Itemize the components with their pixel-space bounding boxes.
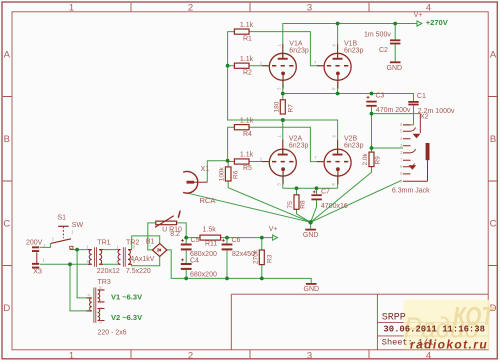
- svg-text:B: B: [490, 134, 496, 145]
- svg-text:A: A: [4, 50, 11, 61]
- svg-text:1.1k: 1.1k: [240, 22, 254, 29]
- svg-text:1.1k: 1.1k: [240, 117, 254, 124]
- svg-text:1: 1: [69, 3, 74, 14]
- svg-text:R2: R2: [243, 70, 252, 77]
- svg-text:X2: X2: [420, 113, 429, 120]
- svg-text:75: 75: [287, 201, 294, 209]
- svg-text:D: D: [3, 303, 10, 314]
- svg-text:270k: 270k: [252, 249, 259, 264]
- svg-text:220x12: 220x12: [97, 268, 120, 275]
- svg-text:X3: X3: [33, 268, 42, 275]
- svg-text:6.3mm Jack: 6.3mm Jack: [392, 187, 430, 194]
- svg-text:+: +: [149, 243, 152, 248]
- svg-text:470m 200v: 470m 200v: [376, 107, 411, 114]
- svg-text:6n23p: 6n23p: [344, 47, 364, 54]
- svg-text:1.1k: 1.1k: [240, 56, 254, 63]
- svg-text:3: 3: [307, 3, 312, 14]
- svg-text:SRPP: SRPP: [382, 312, 406, 323]
- svg-text:+270V: +270V: [426, 18, 448, 27]
- svg-text:GND: GND: [303, 232, 319, 239]
- svg-text:R5: R5: [243, 165, 252, 172]
- svg-text:30.06.2011 11:16:38: 30.06.2011 11:16:38: [383, 324, 485, 334]
- svg-text:C: C: [3, 219, 10, 230]
- svg-text:6n23p: 6n23p: [344, 142, 364, 149]
- svg-text:1m 500v: 1m 500v: [364, 31, 391, 38]
- svg-text:R6: R6: [232, 170, 239, 179]
- svg-text:X1: X1: [201, 166, 210, 173]
- svg-text:A: A: [490, 50, 497, 61]
- svg-text:1: 1: [69, 350, 74, 361]
- svg-text:1.5k: 1.5k: [203, 227, 217, 234]
- svg-text:radiokot.ru: radiokot.ru: [410, 338, 488, 352]
- svg-text:2.0k: 2.0k: [362, 152, 369, 165]
- svg-text:C1: C1: [417, 93, 426, 100]
- svg-text:S1: S1: [58, 215, 67, 222]
- svg-text:GND: GND: [387, 65, 403, 72]
- svg-text:1.1k: 1.1k: [240, 152, 254, 159]
- svg-text:SW: SW: [72, 222, 84, 229]
- svg-text:C6: C6: [232, 237, 241, 244]
- svg-text:7.5x220: 7.5x220: [126, 268, 151, 275]
- svg-text:680x200: 680x200: [190, 271, 217, 278]
- svg-text:3: 3: [307, 350, 312, 361]
- svg-text:V+: V+: [414, 12, 423, 19]
- svg-text:4: 4: [426, 350, 431, 361]
- svg-text:V1 ~6.3V: V1 ~6.3V: [111, 292, 142, 301]
- svg-text:V2A: V2A: [289, 135, 303, 142]
- svg-text:200V: 200V: [26, 240, 43, 247]
- svg-text:C2: C2: [379, 47, 388, 54]
- svg-text:V2 ~6.3V: V2 ~6.3V: [111, 313, 142, 322]
- svg-text:6n23p: 6n23p: [289, 47, 309, 54]
- svg-text:C3: C3: [376, 93, 385, 100]
- svg-text:V2B: V2B: [344, 135, 358, 142]
- svg-text:V+: V+: [269, 226, 278, 233]
- svg-text:100k: 100k: [218, 166, 225, 181]
- svg-text:R9: R9: [375, 156, 382, 165]
- svg-text:4: 4: [426, 3, 431, 14]
- svg-text:4700x16: 4700x16: [321, 203, 348, 210]
- svg-text:220 - 2x6: 220 - 2x6: [98, 330, 127, 337]
- svg-text:V1B: V1B: [344, 40, 358, 47]
- svg-text:8.2: 8.2: [170, 231, 180, 238]
- svg-text:C5: C5: [191, 237, 200, 244]
- svg-text:C7: C7: [321, 188, 330, 195]
- svg-text:R11: R11: [205, 240, 217, 247]
- svg-text:R8: R8: [300, 200, 307, 209]
- svg-text:V1A: V1A: [289, 40, 303, 47]
- svg-text:TR1: TR1: [97, 240, 110, 247]
- svg-text:2: 2: [188, 3, 193, 14]
- svg-text:6n23p: 6n23p: [289, 142, 309, 149]
- svg-text:C4: C4: [190, 258, 199, 265]
- svg-text:2: 2: [188, 350, 193, 361]
- svg-text:R1: R1: [243, 36, 252, 43]
- svg-text:GND: GND: [304, 286, 320, 293]
- svg-text:RCA: RCA: [200, 196, 216, 205]
- svg-text:C: C: [490, 219, 497, 230]
- svg-text:R7: R7: [288, 104, 295, 113]
- svg-text:R3: R3: [266, 254, 273, 263]
- svg-text:180: 180: [273, 101, 280, 112]
- svg-text:R4: R4: [243, 131, 252, 138]
- svg-text:B: B: [4, 134, 10, 145]
